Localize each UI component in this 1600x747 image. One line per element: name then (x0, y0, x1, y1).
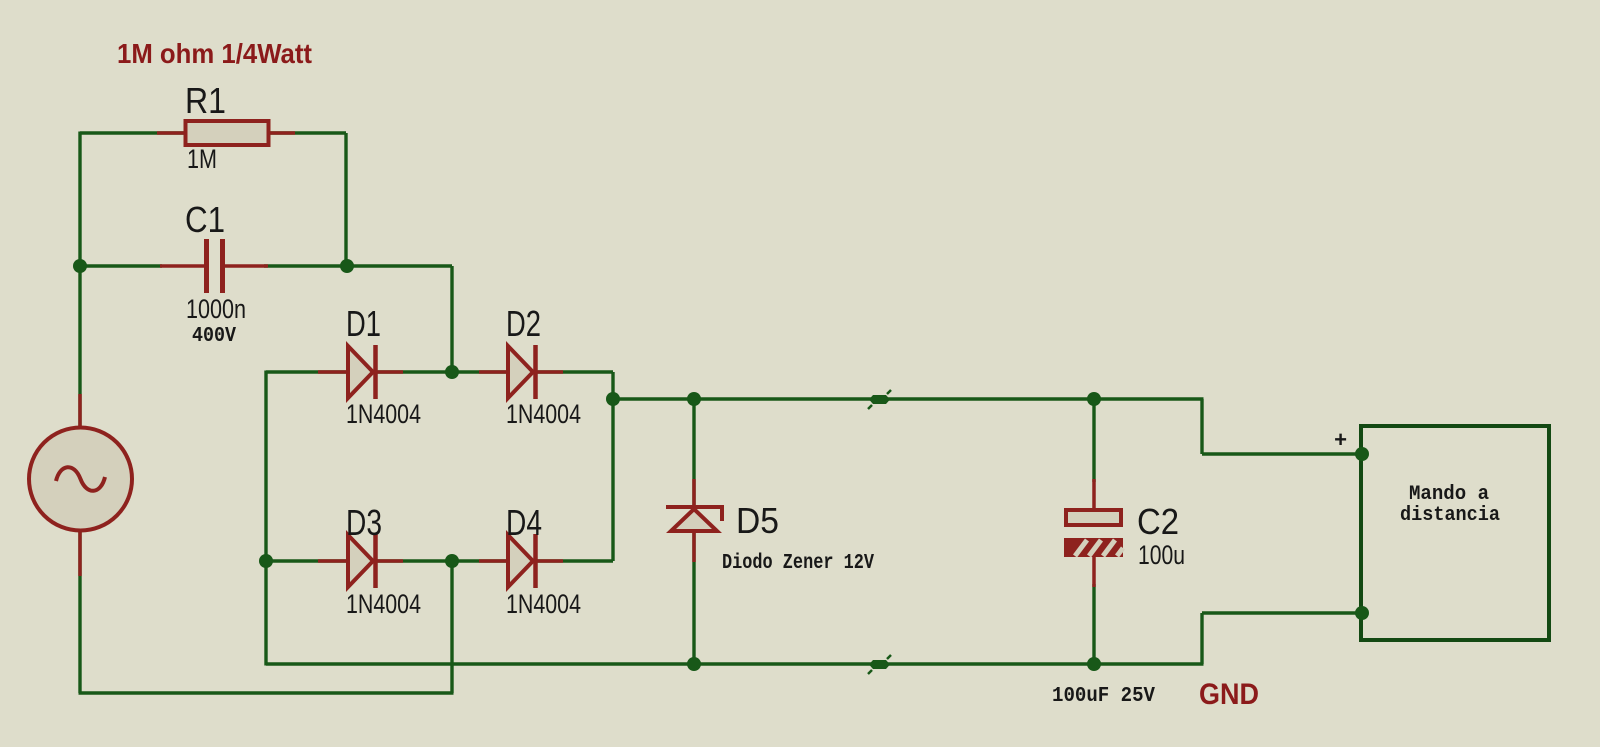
svg-text:R1: R1 (185, 80, 226, 121)
svg-text:1N4004: 1N4004 (506, 399, 581, 429)
svg-text:100uF 25V: 100uF 25V (1052, 685, 1155, 708)
svg-text:C1: C1 (185, 199, 225, 240)
svg-text:distancia: distancia (1400, 504, 1500, 527)
svg-text:100u: 100u (1138, 540, 1185, 570)
svg-text:1M: 1M (187, 144, 217, 174)
svg-text:Diodo Zener 12V: Diodo Zener 12V (722, 552, 874, 575)
svg-text:GND: GND (1199, 678, 1259, 711)
svg-text:Mando a: Mando a (1409, 483, 1489, 506)
svg-text:D4: D4 (506, 502, 542, 543)
svg-text:D3: D3 (346, 502, 382, 543)
svg-text:D1: D1 (346, 303, 381, 344)
svg-text:1N4004: 1N4004 (506, 589, 581, 619)
svg-text:D5: D5 (736, 500, 779, 541)
svg-text:1M ohm 1/4Watt: 1M ohm 1/4Watt (117, 38, 312, 69)
svg-text:C2: C2 (1137, 501, 1179, 542)
svg-text:400V: 400V (192, 325, 236, 348)
svg-text:+: + (1334, 429, 1347, 454)
svg-text:1N4004: 1N4004 (346, 399, 421, 429)
svg-text:1N4004: 1N4004 (346, 589, 421, 619)
svg-text:1000n: 1000n (186, 294, 246, 324)
svg-text:D2: D2 (506, 303, 541, 344)
